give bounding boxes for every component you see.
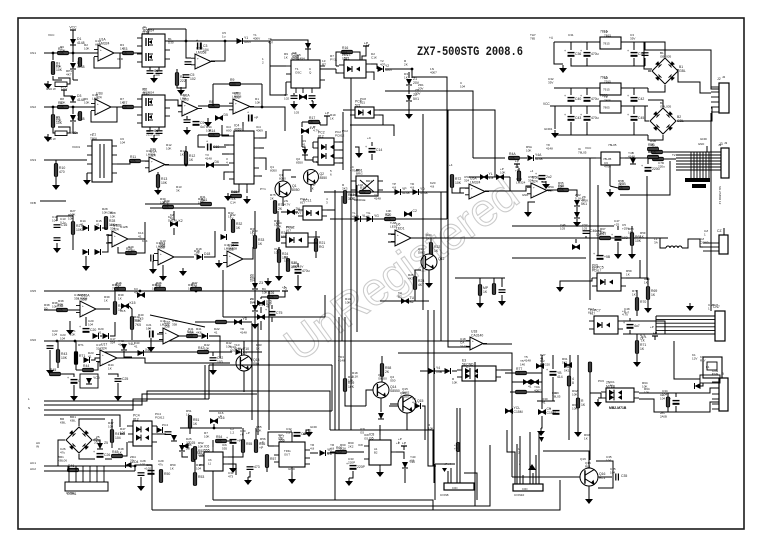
capacitor C37 xyxy=(580,49,599,57)
wire xyxy=(339,157,343,159)
wire xyxy=(243,341,245,355)
label xyxy=(654,237,659,245)
label xyxy=(256,425,262,433)
label xyxy=(30,158,36,162)
svg-text:414: 414 xyxy=(557,375,563,379)
svg-text:41: 41 xyxy=(88,355,92,359)
wire xyxy=(94,53,120,68)
svg-text:CN6: CN6 xyxy=(30,338,36,342)
wire xyxy=(165,100,182,106)
label xyxy=(70,209,76,217)
svg-text:LM358: LM358 xyxy=(160,323,170,327)
label xyxy=(70,415,76,423)
bus wire z3 xyxy=(44,399,209,410)
svg-text:4u7: 4u7 xyxy=(266,303,271,307)
wire xyxy=(75,341,77,351)
svg-text:LM358: LM358 xyxy=(78,297,88,301)
wire xyxy=(254,290,256,305)
bridge rectifier BR1 xyxy=(66,427,92,453)
label xyxy=(360,97,366,105)
label xyxy=(572,389,578,397)
wire xyxy=(621,105,648,107)
ground xyxy=(82,263,90,271)
long wire xyxy=(512,476,580,478)
svg-text:+: + xyxy=(247,111,249,115)
wire xyxy=(510,186,531,191)
svg-text:LM358: LM358 xyxy=(232,95,242,99)
label xyxy=(519,460,521,466)
svg-text:1K: 1K xyxy=(309,120,314,124)
svg-text:10K: 10K xyxy=(52,305,57,309)
diode D22 xyxy=(202,333,208,339)
svg-text:324: 324 xyxy=(110,341,115,345)
resistor R1 xyxy=(51,62,62,75)
svg-text:41: 41 xyxy=(194,253,198,257)
svg-text:10K: 10K xyxy=(209,133,216,137)
thermistor RT1 xyxy=(74,352,85,365)
svg-text:1: 1 xyxy=(712,373,714,377)
wire xyxy=(73,122,78,133)
ground xyxy=(556,284,564,292)
wire xyxy=(550,105,600,107)
capacitor C34 xyxy=(669,397,680,405)
label xyxy=(160,239,166,247)
svg-text:102: 102 xyxy=(360,190,366,194)
wire xyxy=(598,393,601,398)
label xyxy=(117,57,124,61)
optocoupler PC5 xyxy=(592,266,626,292)
diode K15 xyxy=(121,301,136,309)
wire xyxy=(700,383,703,386)
svg-text:41: 41 xyxy=(528,385,532,389)
svg-text:D30: D30 xyxy=(168,41,174,45)
diode D27 xyxy=(523,379,531,385)
label xyxy=(410,455,416,463)
diode TU xyxy=(401,296,415,304)
label xyxy=(274,247,280,255)
wire xyxy=(158,67,160,70)
label xyxy=(252,229,258,237)
label xyxy=(398,437,402,445)
diode D30 xyxy=(564,362,572,368)
label xyxy=(404,59,408,67)
label xyxy=(367,136,372,140)
wire xyxy=(123,442,127,456)
svg-text:GND: GND xyxy=(288,467,296,471)
pin wire xyxy=(516,444,518,484)
label xyxy=(371,52,377,60)
power VCC xyxy=(69,26,77,35)
label xyxy=(166,143,172,151)
wire xyxy=(648,151,651,153)
wire xyxy=(72,53,74,62)
diode D2 xyxy=(70,61,85,69)
wire xyxy=(181,79,186,88)
svg-text:SG 2SB02 12: SG 2SB02 12 xyxy=(718,186,722,205)
label xyxy=(230,427,235,435)
label xyxy=(572,403,578,411)
label xyxy=(452,377,457,385)
svg-text:1K: 1K xyxy=(310,187,314,191)
wire xyxy=(408,86,410,94)
label xyxy=(194,249,200,257)
power +P xyxy=(401,442,407,451)
svg-text:+P: +P xyxy=(515,160,520,164)
resistor R48 xyxy=(112,450,123,458)
label xyxy=(164,199,170,207)
svg-text:C1K: C1K xyxy=(371,56,377,60)
ground xyxy=(52,182,60,190)
svg-text:D882: D882 xyxy=(402,391,410,395)
label xyxy=(266,301,272,309)
wire xyxy=(629,330,631,334)
wire xyxy=(629,318,631,321)
diode YG xyxy=(367,214,380,222)
wire xyxy=(640,278,648,286)
label xyxy=(350,165,357,173)
wire xyxy=(242,122,244,126)
svg-text:+: + xyxy=(82,304,84,308)
wire xyxy=(189,429,191,434)
svg-text:K2: K2 xyxy=(179,219,183,223)
capacitor C14 xyxy=(365,145,382,153)
wire xyxy=(434,464,436,500)
wire xyxy=(228,453,243,457)
wire xyxy=(243,371,245,392)
svg-text:AC1: AC1 xyxy=(30,461,36,465)
svg-text:1K: 1K xyxy=(252,233,256,237)
label xyxy=(250,297,256,305)
bridge rectifier B1 xyxy=(652,58,686,84)
label xyxy=(156,241,166,249)
label xyxy=(279,173,286,181)
svg-text:8050: 8050 xyxy=(270,169,277,173)
svg-text:10K: 10K xyxy=(558,185,563,189)
wire xyxy=(92,106,95,108)
diode D4 xyxy=(70,113,85,121)
wire xyxy=(254,211,256,235)
wire xyxy=(315,252,317,258)
svg-text:78L05: 78L05 xyxy=(552,395,561,399)
wire xyxy=(319,122,321,125)
label xyxy=(286,427,292,435)
label xyxy=(253,33,261,41)
svg-text:817: 817 xyxy=(286,229,291,233)
wire xyxy=(585,236,587,238)
svg-text:358: 358 xyxy=(232,247,237,251)
svg-text:+4: +4 xyxy=(449,163,453,167)
svg-text:4K8: 4K8 xyxy=(196,331,202,335)
label xyxy=(80,219,86,227)
wire xyxy=(220,134,229,136)
resistor R67 xyxy=(600,232,611,240)
label xyxy=(604,30,611,38)
wire xyxy=(186,116,188,119)
resistor R80 xyxy=(492,284,495,295)
label xyxy=(660,101,671,109)
wire xyxy=(648,42,665,57)
svg-text:41: 41 xyxy=(134,345,138,349)
diode ZD4 xyxy=(126,460,139,468)
ground xyxy=(154,187,162,195)
label xyxy=(360,427,365,435)
label xyxy=(380,59,385,67)
diode D24 xyxy=(157,427,163,433)
svg-text:20: 20 xyxy=(130,459,134,463)
resistor R79 xyxy=(478,285,489,296)
svg-text:1K: 1K xyxy=(584,437,588,441)
long wire C xyxy=(379,110,495,177)
wire xyxy=(639,399,719,412)
connector J3 xyxy=(719,142,729,178)
wire xyxy=(182,452,188,457)
label xyxy=(520,359,525,367)
optocoupler PCL1 xyxy=(298,199,327,221)
label xyxy=(514,493,524,497)
svg-text:CON: CON xyxy=(452,487,458,490)
regulator U10 xyxy=(596,152,625,170)
wire xyxy=(663,151,676,153)
resistor R76 xyxy=(588,362,591,372)
svg-text:10K: 10K xyxy=(57,308,64,312)
IC U4 hex inverter xyxy=(229,124,259,190)
svg-text:1K: 1K xyxy=(108,367,112,371)
resistor R42 xyxy=(198,346,209,354)
wire xyxy=(198,335,201,337)
resistor R75 xyxy=(273,201,284,214)
label xyxy=(454,443,458,451)
wire xyxy=(577,355,579,398)
resistor R4B xyxy=(648,143,659,151)
svg-text:5.1K: 5.1K xyxy=(575,197,581,201)
wire xyxy=(271,317,273,322)
svg-text:CON10: CON10 xyxy=(514,493,524,497)
ground xyxy=(177,87,185,95)
svg-text:104: 104 xyxy=(52,219,57,223)
resistor R3 xyxy=(123,47,134,55)
wire xyxy=(246,189,248,193)
diode D18 xyxy=(197,252,211,260)
resistor R57 xyxy=(265,455,276,468)
diode Y4D xyxy=(445,368,451,374)
svg-text:1K: 1K xyxy=(581,403,586,407)
optocoupler PC4 dual xyxy=(128,414,157,447)
svg-text:1K: 1K xyxy=(640,235,644,239)
svg-text:4.8K: 4.8K xyxy=(188,331,194,335)
diode YD xyxy=(413,187,428,195)
label xyxy=(466,365,471,373)
power arrow xyxy=(442,468,447,472)
wire xyxy=(312,157,314,162)
bus wire xyxy=(223,316,325,318)
svg-text:10K: 10K xyxy=(70,333,75,337)
svg-text:324: 324 xyxy=(101,347,107,351)
wire xyxy=(313,242,318,244)
wire xyxy=(636,290,638,297)
wire xyxy=(243,351,262,353)
label xyxy=(560,223,566,231)
ground xyxy=(137,483,145,491)
bus wire z1 xyxy=(44,391,330,430)
label xyxy=(640,231,646,239)
wire xyxy=(347,451,364,453)
svg-text:10K: 10K xyxy=(600,231,605,235)
svg-text:+: + xyxy=(93,450,95,454)
wire xyxy=(620,161,670,195)
label xyxy=(30,289,36,293)
label xyxy=(186,409,192,417)
capacitor C42 xyxy=(627,94,644,102)
label xyxy=(660,393,665,401)
diode K21 xyxy=(496,174,504,180)
svg-text:OUT: OUT xyxy=(284,452,290,456)
wire xyxy=(330,451,335,453)
label xyxy=(294,107,299,115)
wire xyxy=(254,249,256,283)
connector CON1 footprint xyxy=(65,466,108,496)
label xyxy=(522,193,528,197)
svg-text:+4: +4 xyxy=(530,169,534,173)
svg-text:GND: GND xyxy=(698,142,704,146)
diode D14 xyxy=(83,225,89,231)
wire xyxy=(379,425,381,435)
resistor R43 xyxy=(56,350,67,363)
wire xyxy=(381,377,383,382)
wire xyxy=(626,260,640,278)
svg-text:GBL005: GBL005 xyxy=(660,55,671,59)
wire xyxy=(141,160,149,162)
wire xyxy=(353,52,360,60)
capacitor C31 xyxy=(247,465,260,469)
label xyxy=(302,139,306,147)
svg-text:1: 1 xyxy=(704,233,706,237)
wire xyxy=(157,333,163,335)
svg-text:IN: IN xyxy=(36,445,39,449)
label xyxy=(120,43,124,51)
svg-text:103: 103 xyxy=(294,111,299,115)
capacitor C41 xyxy=(580,94,599,102)
svg-text:10K: 10K xyxy=(256,429,261,433)
svg-text:C20: C20 xyxy=(90,328,96,332)
wire xyxy=(293,93,295,95)
svg-text:1K: 1K xyxy=(258,242,263,246)
label xyxy=(366,43,370,47)
label xyxy=(168,215,177,223)
wire xyxy=(271,305,273,309)
wire xyxy=(343,109,350,111)
label xyxy=(102,207,113,215)
op-amp U2A xyxy=(178,94,202,117)
svg-text:104: 104 xyxy=(203,48,209,52)
regulator U8 xyxy=(600,76,621,96)
svg-text:LEDL: LEDL xyxy=(390,225,398,229)
wire xyxy=(259,131,266,138)
label xyxy=(246,431,250,435)
label xyxy=(94,437,98,445)
label xyxy=(624,307,630,315)
diode D21 xyxy=(103,333,109,339)
label xyxy=(542,397,548,405)
capacitor C10 xyxy=(206,140,219,151)
capacitor C22 xyxy=(210,356,224,364)
wire xyxy=(224,172,229,180)
label xyxy=(84,97,89,105)
svg-text:PC4: PC4 xyxy=(162,423,168,427)
diode D5 xyxy=(215,113,228,121)
wire xyxy=(91,107,117,122)
wire xyxy=(313,236,320,238)
wire xyxy=(505,372,515,374)
wire xyxy=(507,430,515,484)
svg-text:4148: 4148 xyxy=(374,197,381,201)
svg-text:K1: K1 xyxy=(706,365,710,369)
bus wire xyxy=(152,480,560,510)
wire xyxy=(173,228,175,235)
label xyxy=(722,75,726,79)
label xyxy=(575,193,581,201)
bridge rectifier B2 xyxy=(650,108,684,134)
svg-text:RG: RG xyxy=(319,245,324,249)
svg-text:103: 103 xyxy=(140,463,145,467)
label xyxy=(118,447,124,455)
svg-text:RT: RT xyxy=(322,63,326,67)
svg-text:+: + xyxy=(97,102,99,106)
wire xyxy=(106,242,112,244)
svg-text:LM8: LM8 xyxy=(92,97,98,101)
label xyxy=(72,145,80,149)
wire xyxy=(571,58,645,66)
wire xyxy=(180,164,205,166)
svg-text:+P: +P xyxy=(515,169,519,173)
label xyxy=(444,462,451,466)
diode Z3 xyxy=(252,281,263,289)
wire xyxy=(371,142,373,146)
wire xyxy=(388,241,395,243)
wire xyxy=(633,88,635,95)
label xyxy=(288,467,296,471)
label xyxy=(322,59,326,67)
svg-text:2A6B: 2A6B xyxy=(660,414,667,418)
label xyxy=(540,353,546,361)
resistor R4C xyxy=(648,155,659,158)
vertical bus xyxy=(589,158,591,300)
label 28C xyxy=(660,411,667,418)
svg-text:1K: 1K xyxy=(118,297,122,301)
label xyxy=(430,67,437,75)
svg-text:1K: 1K xyxy=(180,153,184,157)
capacitor C26 xyxy=(93,450,110,458)
svg-text:PC6: PC6 xyxy=(598,379,604,383)
vertical bus xyxy=(597,185,599,255)
label xyxy=(270,165,277,173)
wire xyxy=(118,247,125,253)
svg-text:G5: G5 xyxy=(360,431,364,435)
resistor R32 xyxy=(231,220,242,233)
optocoupler PC1 xyxy=(339,53,371,79)
label xyxy=(292,261,304,269)
trimmer RP1 xyxy=(46,82,67,91)
label xyxy=(584,433,590,441)
label xyxy=(30,201,36,205)
svg-text:1: 1 xyxy=(708,307,710,311)
wire xyxy=(512,381,523,383)
label xyxy=(150,147,157,151)
label xyxy=(170,463,176,471)
svg-text:7K: 7K xyxy=(112,287,116,291)
wire xyxy=(72,30,74,53)
capacitor C47 xyxy=(611,233,628,241)
driver IC2 xyxy=(137,88,170,128)
